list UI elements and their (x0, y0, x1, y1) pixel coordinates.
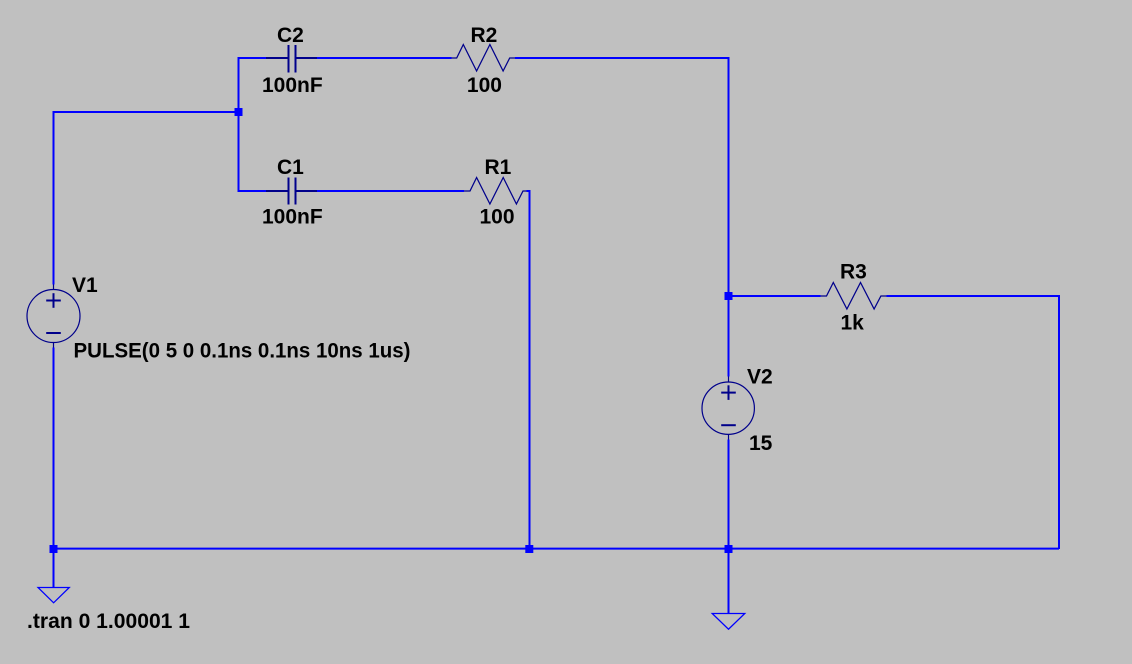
svg-text:C1: C1 (277, 156, 304, 179)
svg-text:C2: C2 (277, 24, 304, 47)
svg-text:V2: V2 (747, 366, 773, 389)
svg-text:100nF: 100nF (262, 74, 323, 97)
svg-text:.tran 0 1.00001 1: .tran 0 1.00001 1 (27, 610, 190, 633)
svg-text:1k: 1k (841, 312, 865, 335)
svg-text:R2: R2 (471, 24, 498, 47)
svg-text:R3: R3 (840, 261, 867, 284)
svg-text:100nF: 100nF (262, 206, 323, 229)
svg-text:V1: V1 (72, 274, 98, 297)
svg-text:100: 100 (467, 74, 502, 97)
svg-text:15: 15 (749, 432, 773, 455)
svg-text:R1: R1 (485, 156, 512, 179)
svg-text:100: 100 (480, 206, 515, 229)
svg-text:PULSE(0 5 0 0.1ns 0.1ns 10ns 1: PULSE(0 5 0 0.1ns 0.1ns 10ns 1us) (74, 340, 411, 363)
